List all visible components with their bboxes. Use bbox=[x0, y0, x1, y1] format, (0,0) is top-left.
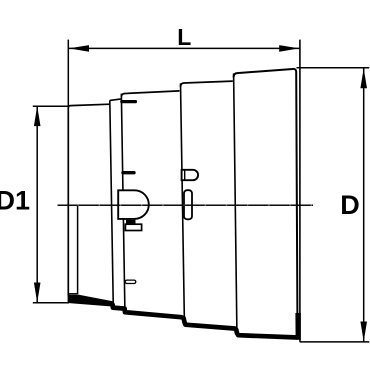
collar left step line bbox=[110, 100, 114, 307]
D extension bottom bbox=[300, 341, 370, 343]
tick on collar mid lower bbox=[125, 280, 136, 283]
bottom thick contour bbox=[113, 305, 298, 338]
collar top edge bbox=[110, 99, 122, 100]
bottom-left wall wedge bbox=[68, 295, 114, 307]
section3 top edge bbox=[121, 91, 179, 97]
L arrow left bbox=[69, 45, 89, 52]
svg-text:D1: D1 bbox=[0, 186, 30, 216]
socket inner line below center left bbox=[77, 205, 79, 294]
D1 extension top bbox=[33, 105, 69, 107]
black block below D-shape bbox=[126, 220, 136, 225]
body left edge bbox=[68, 104, 110, 295]
L dimension line bbox=[69, 47, 299, 49]
tab on step3 line (rounded) bbox=[182, 170, 198, 180]
tab inner line bbox=[184, 170, 186, 179]
D1 arrow bottom bbox=[34, 283, 41, 303]
L arrow right bbox=[279, 45, 299, 52]
injection pad (D-shape) on collar bbox=[118, 190, 149, 219]
tick on collar mid upper bbox=[123, 171, 134, 174]
collar right step line bbox=[121, 94, 125, 311]
centerline bbox=[58, 204, 313, 206]
small rect below D-shape bbox=[125, 224, 141, 230]
step line section3/4 bbox=[181, 83, 185, 321]
D1 extension bottom bbox=[33, 302, 69, 304]
section4 top edge bbox=[181, 81, 233, 87]
L extension line left bbox=[67, 40, 69, 106]
D1 arrow top bbox=[34, 106, 41, 126]
D arrow top bbox=[360, 68, 367, 88]
svg-text:D: D bbox=[340, 190, 360, 220]
D1 dimension line bbox=[36, 106, 38, 303]
section5 top edge bbox=[234, 69, 298, 336]
L extension line right bbox=[299, 40, 301, 342]
socket mouth line bottom-left bbox=[68, 293, 77, 295]
step line section4/5 bbox=[234, 73, 237, 331]
D dimension line bbox=[363, 68, 365, 341]
svg-text:L: L bbox=[177, 24, 191, 50]
D extension top bbox=[297, 67, 370, 69]
bottom-right edge merge bbox=[295, 313, 300, 340]
stadium feature on step3 line bbox=[184, 190, 192, 219]
tick on collar top bbox=[122, 100, 136, 103]
D arrow bottom bbox=[360, 322, 367, 342]
